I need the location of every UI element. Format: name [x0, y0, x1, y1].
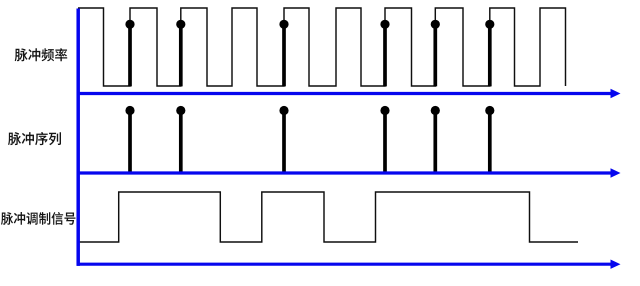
sample dot T6: [485, 20, 494, 29]
sample stem T5 on clock rising edge: [433, 24, 437, 86]
sample dot T2: [176, 20, 185, 29]
x-axis 2 (time axis, blue arrow): [77, 171, 612, 174]
pulse dot P6: [485, 106, 494, 115]
sample stem T6 on clock rising edge: [488, 24, 492, 86]
pulse dot P2: [176, 106, 185, 115]
pulse stem P3: [282, 111, 286, 172]
sample dot T3: [279, 20, 288, 29]
pulse stem P5: [433, 111, 437, 172]
sample stem T3 on clock rising edge: [282, 24, 286, 86]
sample stem T1 on clock rising edge: [128, 24, 132, 86]
pulse dot P3: [279, 106, 288, 115]
sample dot T1: [125, 20, 134, 29]
pulse stem P1: [128, 111, 132, 172]
x-axis 3 (time axis, blue arrow): [77, 263, 612, 266]
sample dot T4: [380, 20, 389, 29]
label "脉冲序列" (pulse train): [8, 132, 61, 145]
y-axis (vertical blue): [76, 9, 80, 266]
modulating square waveform (row 3): [78, 192, 578, 242]
label "脉冲调制信号" (pulse modulation signal): [1, 212, 76, 225]
pulse stem P6: [488, 111, 492, 172]
x-axis 1 (time axis, blue arrow): [77, 92, 612, 95]
label "脉冲频率" (pulse frequency): [15, 48, 68, 61]
pulse dot P4: [380, 106, 389, 115]
pulse stem P2: [179, 111, 183, 172]
pulse dot P5: [431, 106, 440, 115]
sample stem T2 on clock rising edge: [179, 24, 183, 86]
pulse stem P4: [383, 111, 387, 172]
pulse dot P1: [125, 106, 134, 115]
sample stem T4 on clock rising edge: [383, 24, 387, 86]
sample dot T5: [431, 20, 440, 29]
clock square waveform (row 1): [78, 8, 566, 86]
